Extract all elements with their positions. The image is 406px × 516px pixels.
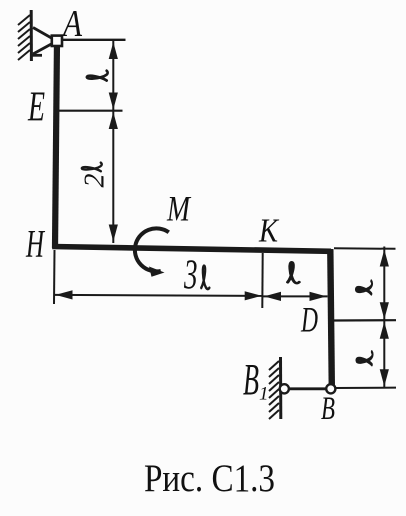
arrow down at D (upper): [380, 302, 389, 319]
E tick line: [59, 110, 123, 112]
moment arrowhead: [149, 267, 165, 277]
D tick line: [334, 319, 397, 321]
right dim line: [383, 247, 385, 389]
pin support triangle at A: [32, 28, 56, 56]
arrow up at E (lower): [109, 112, 118, 129]
svg-text:M: M: [166, 189, 191, 229]
pin square at A: [52, 36, 62, 46]
svg-text:H: H: [25, 223, 45, 266]
dim line A-E-H: [112, 41, 114, 243]
arrow left at H tick: [56, 290, 73, 299]
label l (K-corner): [288, 262, 299, 283]
hatching at B1 wall: [269, 361, 279, 419]
svg-text:K: K: [258, 213, 280, 250]
label l (A-E), rotated: [87, 71, 108, 81]
label l (D-B), rotated: [356, 352, 372, 365]
pin circle B1: [280, 384, 289, 393]
svg-text:E: E: [27, 85, 45, 131]
arrow right at K tick: [245, 291, 262, 300]
wall at B1: [279, 357, 282, 419]
member corner to B (vertical): [330, 249, 332, 386]
arrow up at D (lower): [380, 322, 389, 339]
arrow down at E (upper): [109, 93, 118, 110]
svg-text:3: 3: [183, 253, 197, 299]
B extension line: [335, 387, 396, 389]
dim line l (K-corner): [263, 295, 328, 297]
moment M arc: [135, 228, 169, 271]
top extension line from A: [62, 39, 126, 41]
svg-text:2: 2: [80, 174, 111, 188]
wall at A: [30, 10, 33, 61]
arrow up at A: [109, 42, 118, 59]
label 2l (E-H), rotated: [80, 163, 111, 188]
label l (corner-D), rotated: [356, 281, 372, 294]
K tick below member: [261, 253, 263, 308]
arrow down at B level: [380, 369, 389, 386]
member A to H (vertical): [55, 41, 57, 248]
pin circle B: [326, 384, 335, 393]
corner right extension line: [334, 247, 396, 250]
arrow up at corner level: [380, 250, 389, 267]
arrow left at K tick (l dim): [264, 292, 281, 301]
arrow down at H: [109, 225, 118, 242]
svg-text:B: B: [321, 391, 335, 427]
svg-text:B: B: [243, 355, 259, 404]
svg-text:D: D: [300, 300, 318, 340]
svg-text:1: 1: [259, 384, 269, 405]
dim line 3l: [55, 295, 263, 296]
H tick below member: [53, 250, 56, 304]
hatching at A wall: [18, 15, 30, 60]
arrow right at corner (l dim): [310, 292, 327, 301]
svg-text:Рис. С1.3: Рис. С1.3: [144, 457, 275, 500]
member H to corner (horizontal): [52, 247, 331, 252]
link B1 to B: [287, 387, 327, 390]
